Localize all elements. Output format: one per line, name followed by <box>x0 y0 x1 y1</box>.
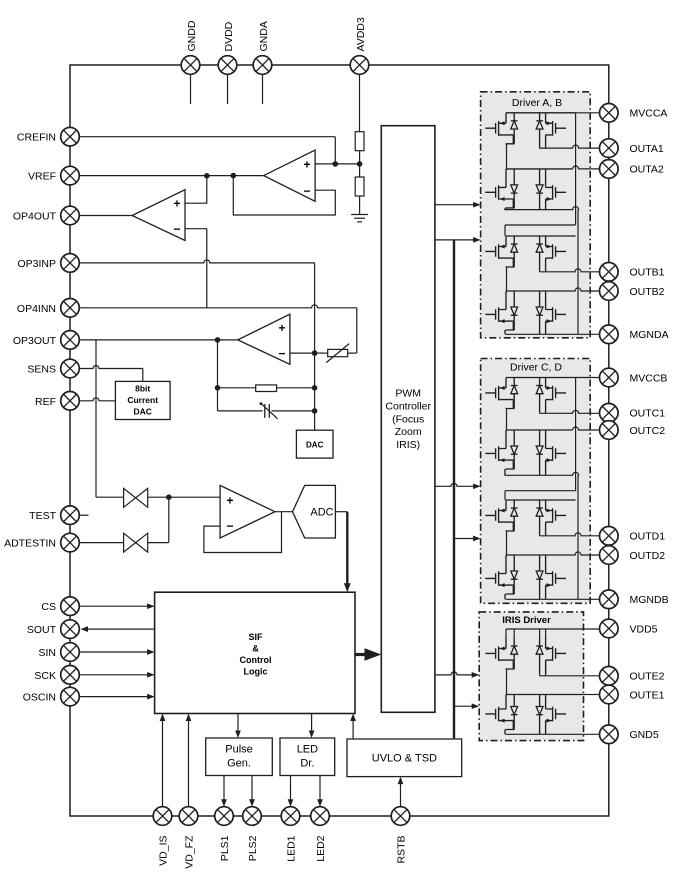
resistor R1 (divider top) <box>355 132 364 151</box>
pin SCK <box>61 666 80 685</box>
ground symbol <box>351 214 368 216</box>
svg-text:VD_FZ: VD_FZ <box>184 835 196 869</box>
pin LED1 <box>281 807 300 826</box>
svg-text:TEST: TEST <box>29 510 56 522</box>
switch SW2 (bowtie) <box>124 533 148 552</box>
pin AVDD3 <box>350 56 369 75</box>
pin OUTB2 <box>600 282 619 301</box>
node VREF/OP4+ tap <box>204 173 210 179</box>
wire ADC output <box>335 511 347 513</box>
wire IRIS diode2 drop <box>539 674 541 676</box>
pin OUTE2 <box>600 667 619 686</box>
node buffer + input <box>333 161 339 167</box>
wire PWM to IRIS (1) <box>435 672 473 675</box>
pin DVDD <box>218 56 237 75</box>
pin OUTA2 <box>600 160 619 179</box>
wire bridge D left leg <box>506 531 508 555</box>
wire U1 feedback loop <box>233 176 335 215</box>
Pulse Gen. box <box>206 738 273 776</box>
pin MVCCB <box>600 368 619 387</box>
wire OUTB1 <box>540 269 600 272</box>
pin LED2 <box>311 807 330 826</box>
op-amp U2 (OP4) <box>132 190 185 241</box>
wire SW2 up to node <box>168 497 170 542</box>
node trimmer cap right <box>312 408 318 414</box>
svg-text:OUTE2: OUTE2 <box>630 671 665 683</box>
wire PWM tap to bus <box>435 239 454 241</box>
svg-text:OUTA2: OUTA2 <box>630 164 664 176</box>
wire MVCC leg down <box>575 378 577 491</box>
pin CREFIN <box>61 127 80 146</box>
op-amp U4 (ADC buffer) <box>220 485 275 538</box>
wire OUTC2 to pin <box>573 427 600 430</box>
svg-text:Logic: Logic <box>244 667 268 677</box>
svg-text:OP4OUT: OP4OUT <box>13 211 57 223</box>
wire U2 - input down to OP4INN <box>185 228 207 230</box>
pin OUTC1 <box>600 404 619 423</box>
Driver C,D block box <box>481 359 591 604</box>
wire bus to Driver A,B (2) <box>454 239 474 241</box>
wire feedback resistor right <box>277 387 315 389</box>
wire trimmer cap right <box>272 410 315 412</box>
svg-text:+: + <box>226 494 233 508</box>
pin OP3OUT <box>61 331 80 350</box>
8bit Current DAC box <box>115 381 170 419</box>
mosfet pair row 2 IRIS <box>485 695 583 735</box>
pin RSTB <box>391 807 410 826</box>
svg-text:LED1: LED1 <box>286 835 298 861</box>
op-amp U3 (OP3) <box>238 314 290 364</box>
pin PLS1 <box>215 807 234 826</box>
pin GNDD <box>181 56 200 75</box>
wire U4 feedback loop <box>204 512 282 553</box>
svg-text:ADTESTIN: ADTESTIN <box>4 538 56 550</box>
wire SCK to SIF <box>80 674 148 676</box>
svg-text:VDD5: VDD5 <box>630 623 658 635</box>
svg-text:RSTB: RSTB <box>396 836 408 864</box>
UVLO & TSD box <box>347 739 462 777</box>
wire VDD5 rail to pin <box>506 628 600 630</box>
svg-text:Controller: Controller <box>385 400 431 412</box>
wire OUTE2 to pin <box>540 675 600 677</box>
svg-text:GNDD: GNDD <box>186 20 198 51</box>
wire PWM to Driver C,D (1) <box>435 483 474 486</box>
svg-text:OP3OUT: OP3OUT <box>13 335 57 347</box>
wire to trimmer cap <box>218 410 263 412</box>
node divider midpoint <box>357 161 363 167</box>
wire OUTD2 to pin <box>575 552 600 555</box>
wire bridge A ground return <box>577 210 579 335</box>
svg-text:CS: CS <box>41 601 56 613</box>
pin SENS <box>61 359 80 378</box>
pin SOUT <box>61 620 80 639</box>
svg-text:OUTC1: OUTC1 <box>630 408 666 420</box>
svg-text:OUTE1: OUTE1 <box>630 689 665 701</box>
wire U2 + input to VREF line <box>185 176 207 203</box>
wire IRIS right leg to OUTE2 <box>545 660 547 676</box>
wire between divider resistors <box>359 151 361 177</box>
wire SIF to Pulse Gen <box>237 714 239 732</box>
SIF & Control Logic box <box>155 592 355 713</box>
pin OUTB1 <box>600 263 619 282</box>
wire to switch SW1 <box>96 496 124 498</box>
wire MGNDB rail to pin <box>506 598 600 600</box>
pin VD_IS <box>153 807 172 826</box>
varistor RV1 <box>328 349 348 356</box>
wire TEST stub <box>79 514 88 516</box>
svg-text:Zoom: Zoom <box>395 426 422 438</box>
Driver A,B block box <box>481 92 591 338</box>
mosfet pair row 4 Driver A,B <box>485 291 575 334</box>
pin GNDA <box>253 56 272 75</box>
svg-text:Control: Control <box>240 655 272 665</box>
wire UVLO bus vertical <box>453 240 455 739</box>
svg-text:Pulse: Pulse <box>225 744 253 756</box>
resistor R3 (feedback) <box>256 385 277 392</box>
svg-text:AVDD3: AVDD3 <box>355 17 367 51</box>
svg-text:DVDD: DVDD <box>223 21 235 51</box>
pin ADTESTIN <box>61 533 80 552</box>
pin VREF <box>61 166 80 185</box>
node OP3OUT feedback tap <box>215 337 221 343</box>
wire IRIS row1 rail connectors <box>505 629 507 638</box>
pin GND5 <box>600 725 619 744</box>
DAC box <box>296 430 333 458</box>
wire bus to Driver C,D (2) <box>454 538 474 540</box>
svg-text:GNDA: GNDA <box>258 21 270 51</box>
wire VD_IS up to SIF <box>162 720 164 807</box>
wire U3 - input <box>290 352 315 354</box>
pin MGNDB <box>600 590 619 609</box>
svg-text:OUTC2: OUTC2 <box>630 425 666 437</box>
svg-text:VD_IS: VD_IS <box>158 836 170 866</box>
pin VD_FZ <box>179 807 198 826</box>
svg-text:PLS2: PLS2 <box>247 835 259 861</box>
wire MVCC leg down <box>575 113 577 225</box>
svg-text:OUTD2: OUTD2 <box>630 550 666 562</box>
wire ADTESTIN to SW2 <box>79 542 123 544</box>
svg-text:SOUT: SOUT <box>27 624 57 636</box>
wire OP4OUT to U2 output <box>79 215 132 217</box>
wire buffer + input to divider mid <box>315 163 360 165</box>
svg-text:MGNDB: MGNDB <box>630 594 669 606</box>
wire node down to DAC <box>314 353 316 430</box>
wire GNDD stub <box>190 74 192 104</box>
svg-text:MVCCA: MVCCA <box>630 108 668 120</box>
wire OUTE1 to pin <box>584 694 600 696</box>
ADC block <box>293 485 336 538</box>
wire Pulse Gen to PLS1 <box>223 776 225 801</box>
svg-text:SIN: SIN <box>38 647 56 659</box>
svg-text:+: + <box>278 321 285 335</box>
svg-text:(Focus: (Focus <box>392 413 424 425</box>
resistor R2 (divider bottom) <box>355 177 364 196</box>
wire GND5 rail to pin <box>506 733 600 735</box>
wire AVDD3 down to divider <box>359 74 361 131</box>
wire SENS <box>79 366 143 369</box>
pin MGNDA <box>600 325 619 344</box>
wire U4 output to ADC <box>275 511 293 513</box>
svg-text:ADC: ADC <box>310 507 333 519</box>
node feedback resistor left <box>215 385 221 391</box>
wire bus to IRIS (2) <box>454 705 473 707</box>
chip outline border <box>70 65 609 816</box>
mosfet pair row 4 Driver C,D <box>485 555 575 599</box>
svg-text:MVCCB: MVCCB <box>630 372 668 384</box>
svg-text:OUTB2: OUTB2 <box>630 286 665 298</box>
node U3 - input junction <box>312 350 318 356</box>
wire LED Dr to LED2 <box>319 776 321 801</box>
wire VREF to U1 output <box>79 175 263 177</box>
wire OUTB2 to pin <box>575 288 600 291</box>
pin VDD5 <box>600 619 619 638</box>
wire OP4INN down to varistor <box>356 308 358 353</box>
svg-text:DAC: DAC <box>306 441 324 450</box>
svg-text:SENS: SENS <box>27 364 56 376</box>
pin OSCIN <box>61 687 80 706</box>
svg-text:OUTB1: OUTB1 <box>630 267 665 279</box>
svg-text:SIF: SIF <box>248 632 263 642</box>
wire CS to SIF <box>80 605 148 607</box>
svg-text:REF: REF <box>35 396 56 408</box>
wire C MVCC jog horizontal <box>505 490 576 492</box>
wire RSTB up to UVLO <box>400 783 402 807</box>
svg-text:Current: Current <box>127 395 158 405</box>
wire SIN to SIF <box>80 651 148 653</box>
pin OUTC2 <box>600 421 619 440</box>
wire bridge C bottom node <box>505 472 579 475</box>
wire GNDA stub <box>262 74 264 104</box>
svg-text:Driver A, B: Driver A, B <box>512 97 562 109</box>
pin TEST <box>61 506 80 525</box>
svg-text:PWM: PWM <box>395 388 421 400</box>
pin OP4INN <box>61 299 80 318</box>
node feedback resistor right <box>312 385 318 391</box>
op-amp U1 (VREF buffer) <box>264 150 315 201</box>
wire OP3OUT down to switch <box>95 340 97 497</box>
svg-text:CREFIN: CREFIN <box>17 132 56 144</box>
svg-text:Driver C, D: Driver C, D <box>510 362 562 374</box>
wire bridge C ground return <box>577 475 579 599</box>
svg-text:LED: LED <box>297 744 318 756</box>
wire bridge A bottom node <box>505 207 579 210</box>
svg-text:−: − <box>173 222 180 236</box>
wire UVLO to SIF <box>352 720 354 739</box>
wire LED Dr to LED1 <box>290 776 292 801</box>
svg-text:SCK: SCK <box>34 670 56 682</box>
svg-text:&: & <box>252 644 259 654</box>
svg-text:+: + <box>303 158 310 172</box>
wire rail to MVCCA <box>576 112 600 114</box>
wire ADC to SIF (bold arrow) <box>346 512 348 586</box>
wire SIF to LED Dr <box>311 714 313 732</box>
IRIS Driver block box <box>479 612 583 741</box>
wire bridge C left leg <box>506 409 508 431</box>
wire node to varistor <box>315 352 328 354</box>
svg-text:VREF: VREF <box>28 171 56 183</box>
wire DVDD stub <box>227 74 229 104</box>
wire REF <box>79 398 115 401</box>
wire PWM to Driver A,B (1) <box>435 204 474 206</box>
wire varistor to OP4INN drop <box>348 352 357 354</box>
node VREF/U1 feedback tap <box>231 173 237 179</box>
wire OUTA2 to pin <box>573 166 600 169</box>
wire to feedback resistor <box>218 387 256 389</box>
pin CS <box>61 597 80 616</box>
wire bridge B left leg <box>506 267 508 291</box>
node switch outputs join <box>166 494 172 500</box>
svg-text:OUTD1: OUTD1 <box>630 531 666 543</box>
svg-text:−: − <box>278 347 285 361</box>
mosfet pair row 3 Driver C,D <box>485 500 575 536</box>
pin OUTA1 <box>600 139 619 158</box>
wire MVCC jog horizontal <box>505 224 576 226</box>
PWM Controller box <box>381 126 435 713</box>
svg-text:GND5: GND5 <box>630 729 659 741</box>
pin MVCCA <box>600 104 619 123</box>
wire bridge A left leg <box>506 144 508 169</box>
svg-text:8bit: 8bit <box>135 384 150 394</box>
wire SW1 to U4 + input <box>148 496 220 498</box>
wire OUTC1 <box>540 410 600 413</box>
pin OP4OUT <box>61 206 80 225</box>
svg-text:OP3INP: OP3INP <box>17 258 56 270</box>
svg-text:−: − <box>303 184 310 198</box>
mosfet pair row 1 Driver A,B <box>485 113 575 149</box>
wire MGNDA rail to pin <box>506 333 600 335</box>
svg-text:Gen.: Gen. <box>227 758 251 770</box>
mosfet pair row 2 Driver A,B <box>485 169 572 210</box>
svg-text:MGNDA: MGNDA <box>630 329 669 341</box>
pin PLS2 <box>243 807 262 826</box>
mosfet pair row 1 IRIS <box>485 638 566 674</box>
switch SW1 (bowtie) <box>124 488 148 507</box>
wire SIF to PWM (bold arrow) <box>355 653 366 656</box>
svg-text:UVLO & TSD: UVLO & TSD <box>372 753 437 765</box>
wire OP3OUT to U3 output <box>79 339 237 341</box>
svg-text:IRIS): IRIS) <box>396 439 420 451</box>
wire VD_FZ up to SIF <box>188 720 190 807</box>
wire OP3INP <box>79 260 314 263</box>
wire feedback left vertical <box>217 340 219 411</box>
wire OUTA1 <box>540 145 600 148</box>
mosfet pair row 1 Driver C,D <box>485 378 575 414</box>
svg-text:IRIS Driver: IRIS Driver <box>502 615 551 626</box>
trimmer capacitor C1 <box>264 404 266 418</box>
wire C MVCC jog down to bridge D rail <box>504 491 506 500</box>
wire OSCIN to SIF <box>80 696 148 698</box>
wire R2 to ground <box>359 196 361 215</box>
LED Dr. box <box>280 738 335 776</box>
wire SW2 output <box>148 542 169 544</box>
svg-text:LED2: LED2 <box>315 835 327 861</box>
pin OP3INP <box>61 254 80 273</box>
mosfet pair row 3 Driver A,B <box>485 236 575 272</box>
wire OP4INN <box>79 305 357 308</box>
wire IRIS left leg <box>506 669 508 695</box>
wire rail to MVCCB <box>576 377 600 379</box>
svg-text:DAC: DAC <box>133 407 151 417</box>
mosfet pair row 2 Driver C,D <box>485 430 572 475</box>
pin OUTD1 <box>600 527 619 546</box>
wire SIF to SOUT <box>87 628 155 630</box>
pin SIN <box>61 643 80 662</box>
svg-text:OSCIN: OSCIN <box>23 692 56 704</box>
svg-text:OP4INN: OP4INN <box>17 303 56 315</box>
svg-text:PLS1: PLS1 <box>219 835 231 861</box>
pin OUTD2 <box>600 546 619 565</box>
wire CREFIN down to buffer + <box>334 137 336 164</box>
wire Pulse Gen to PLS2 <box>251 776 253 801</box>
wire CREFIN <box>79 136 335 138</box>
svg-text:+: + <box>173 197 180 211</box>
pin OUTE1 <box>600 685 619 704</box>
svg-text:−: − <box>226 519 233 533</box>
pin REF <box>61 392 80 411</box>
wire SENS down to 8bit DAC <box>142 369 144 382</box>
wire MVCC jog down to bridge B rail <box>504 225 506 236</box>
svg-text:OUTA1: OUTA1 <box>630 143 664 155</box>
wire OUTD1 <box>540 533 600 536</box>
svg-text:Dr.: Dr. <box>300 758 314 770</box>
arrowhead ADC to SIF <box>344 583 351 592</box>
wire OP3INP down <box>314 263 316 353</box>
